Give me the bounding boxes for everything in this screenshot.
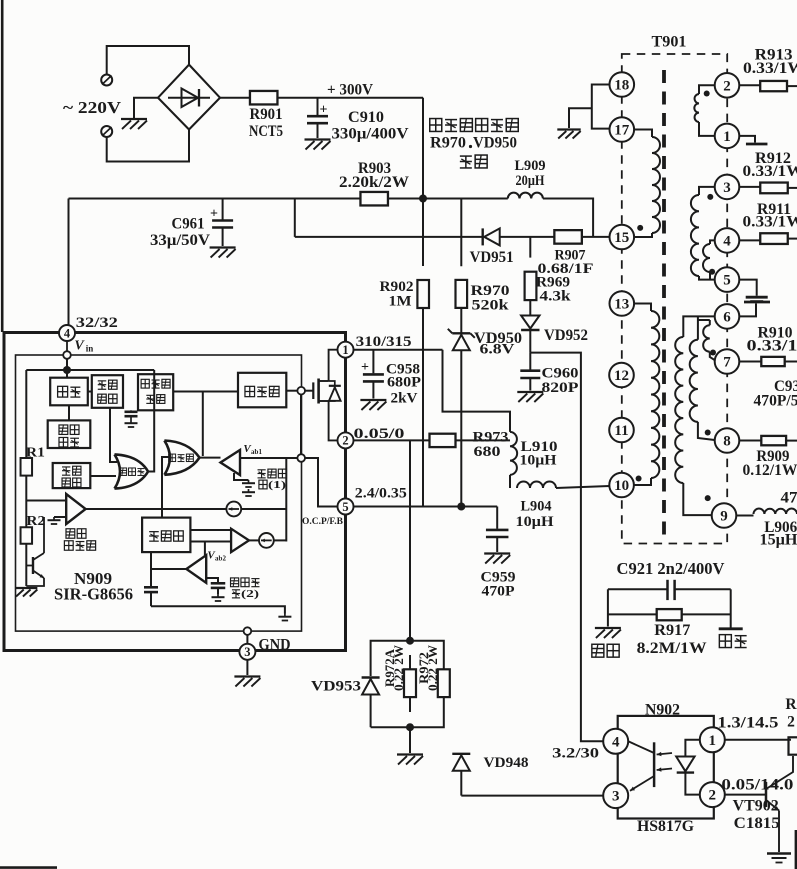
gate voltage ref 1 <box>242 480 255 496</box>
svg-text:8: 8 <box>723 434 731 450</box>
wire <box>222 199 224 220</box>
label 0.05/0 <box>354 426 405 442</box>
wire <box>110 408 117 462</box>
svg-text:VD950: VD950 <box>473 135 517 152</box>
svg-text:R2: R2 <box>26 514 45 529</box>
pin 6t <box>715 304 740 329</box>
svg-text:1.3/14.5: 1.3/14.5 <box>717 715 778 732</box>
svg-text:(2): (2) <box>241 588 259 600</box>
label C960 <box>542 366 579 382</box>
wire <box>740 84 761 86</box>
svg-text:R1: R1 <box>26 445 45 460</box>
wire <box>730 589 732 627</box>
label R9xx <box>785 696 797 731</box>
wire <box>409 727 411 753</box>
AC input terminal top <box>101 75 112 86</box>
label L906 value <box>760 532 797 549</box>
pin 3 <box>239 644 255 660</box>
resistor R910 <box>761 357 784 366</box>
wire <box>295 236 483 238</box>
wire <box>787 85 797 87</box>
wire <box>69 198 362 200</box>
ground input <box>121 119 147 129</box>
label 2.4/0.35 <box>355 486 407 502</box>
label R911 value <box>743 214 797 231</box>
label 470 partial <box>781 490 797 507</box>
phase dot <box>707 194 713 200</box>
wire <box>608 613 657 615</box>
capacitor Vab2 <box>211 583 226 588</box>
phase dot <box>704 91 710 97</box>
current source 2 <box>259 533 274 548</box>
svg-text:12: 12 <box>614 368 629 384</box>
wire <box>354 506 498 508</box>
svg-text:6.8V: 6.8V <box>480 342 515 358</box>
wire <box>274 539 287 541</box>
winding sec-D <box>675 337 683 483</box>
label VD948 <box>484 755 529 771</box>
label GND <box>259 637 291 654</box>
svg-text:20µH: 20µH <box>516 173 545 189</box>
wire <box>204 542 206 556</box>
svg-text:3: 3 <box>244 645 250 659</box>
wire <box>286 390 297 392</box>
current source 1 <box>226 502 241 517</box>
label NCT5 <box>249 123 283 140</box>
wire <box>496 507 498 529</box>
svg-text:32/32: 32/32 <box>76 315 118 331</box>
block over-heat <box>53 463 91 488</box>
scan border bottom-right <box>795 830 797 869</box>
svg-text:HS817G: HS817G <box>637 818 695 835</box>
label L904 <box>521 499 552 515</box>
wire <box>675 588 731 590</box>
wire <box>246 660 248 675</box>
wire <box>305 458 337 507</box>
diode VD951 <box>483 228 500 245</box>
label VD952 <box>544 327 588 344</box>
zener diode VD950 <box>448 329 475 351</box>
diode VD948 <box>452 754 470 771</box>
svg-text:~ 220V: ~ 220V <box>63 98 122 117</box>
wire <box>68 405 70 420</box>
label OCP/FB <box>302 517 344 527</box>
wire <box>725 794 766 796</box>
svg-text:2: 2 <box>709 788 717 804</box>
label 3.2/30 <box>552 745 599 761</box>
node open <box>244 627 252 635</box>
transistor internal <box>26 517 44 586</box>
wire <box>88 391 92 393</box>
wire <box>740 280 757 296</box>
ground C958 <box>360 400 386 410</box>
label R972 <box>417 644 440 691</box>
svg-text:L904: L904 <box>521 499 552 515</box>
svg-text:1: 1 <box>709 733 717 749</box>
label +300V <box>327 81 373 98</box>
wire <box>285 458 287 542</box>
transformer core <box>662 70 666 535</box>
svg-text:5: 5 <box>723 273 731 289</box>
wire <box>90 475 116 477</box>
label C1815 <box>734 815 780 832</box>
resistor R911 <box>760 233 788 244</box>
label C961 value <box>150 232 210 249</box>
wire <box>682 613 731 615</box>
svg-text:0.33/1W: 0.33/1W <box>743 60 797 77</box>
svg-text:R901: R901 <box>250 106 283 123</box>
svg-text:0.22 2W: 0.22 2W <box>392 644 406 691</box>
svg-text:520k: 520k <box>472 298 510 314</box>
label R910 value <box>747 337 797 354</box>
label R901 <box>250 106 283 123</box>
wire <box>68 199 70 326</box>
note line2 <box>430 135 517 152</box>
wire <box>739 440 761 442</box>
wire <box>300 395 302 455</box>
svg-text:820P: 820P <box>542 380 579 396</box>
inductor L909 <box>508 193 543 199</box>
wire <box>634 233 652 237</box>
wire <box>529 300 531 315</box>
resistor R907 <box>554 230 582 244</box>
light arrows <box>657 752 672 772</box>
label C959 <box>481 570 516 586</box>
label Vab2 <box>207 550 226 563</box>
pin 7t <box>715 349 740 374</box>
label L906 <box>764 519 797 536</box>
label R912 value <box>743 163 797 180</box>
svg-text:7: 7 <box>723 355 731 371</box>
svg-text:4.3k: 4.3k <box>540 289 572 305</box>
winding sec-B <box>691 195 699 276</box>
inductor L906 <box>754 509 797 514</box>
wire <box>569 108 592 128</box>
wire <box>173 391 238 393</box>
label VD951 <box>470 249 514 266</box>
label R902 <box>380 279 414 295</box>
block driver <box>238 373 286 408</box>
wire <box>582 236 610 238</box>
wire <box>697 316 699 339</box>
wire <box>190 529 231 531</box>
wire <box>496 537 498 552</box>
node junction <box>406 637 414 645</box>
label L910 value <box>520 453 557 469</box>
label C961 <box>172 215 205 232</box>
transformer T901 dashed box <box>622 54 727 544</box>
winding primary-2 <box>651 311 659 478</box>
svg-text:15µH: 15µH <box>760 532 797 549</box>
pin 4o <box>603 729 628 754</box>
wire <box>509 475 511 488</box>
svg-text:NCT5: NCT5 <box>249 123 283 140</box>
resistor R973 <box>430 434 456 447</box>
svg-text:VT902: VT902 <box>733 798 779 815</box>
svg-text:VD952: VD952 <box>544 327 588 344</box>
label hot-ground <box>592 644 619 657</box>
winding sec-C <box>703 244 710 272</box>
wire <box>25 544 27 586</box>
svg-text:2: 2 <box>787 713 795 730</box>
diode VD952 <box>521 316 539 331</box>
pin 2 <box>338 432 354 448</box>
svg-text:470P/5: 470P/5 <box>754 392 797 409</box>
wire <box>740 186 761 188</box>
label R969 value <box>540 289 572 305</box>
block start-up <box>50 378 88 406</box>
label L909 value <box>516 173 545 189</box>
svg-text:O.C.P/F.B: O.C.P/F.B <box>302 517 344 527</box>
capacitor osc <box>144 587 158 592</box>
label R907 value <box>538 261 594 277</box>
label VD950 <box>474 330 522 347</box>
wire <box>608 588 668 590</box>
wire <box>246 635 248 644</box>
svg-text:10µH: 10µH <box>520 453 557 469</box>
pin 5t <box>715 267 740 292</box>
svg-text:10µH: 10µH <box>516 514 554 530</box>
ground R-column <box>15 588 37 597</box>
wire <box>410 641 444 670</box>
svg-text:R917: R917 <box>654 622 690 639</box>
wire <box>241 508 286 510</box>
wire <box>725 739 791 741</box>
resistor R972 <box>438 669 450 697</box>
wire <box>699 187 715 195</box>
wire <box>200 457 221 459</box>
pin 2o <box>700 782 725 807</box>
phase dot <box>636 476 642 482</box>
svg-text:3: 3 <box>723 180 731 196</box>
wire <box>740 239 761 241</box>
capacitor C910 <box>307 102 328 123</box>
wire <box>371 641 410 676</box>
wire <box>460 308 462 333</box>
wire <box>530 353 603 742</box>
wire <box>556 486 609 488</box>
phase dot <box>710 350 716 356</box>
wire <box>150 592 152 606</box>
label 1.3/14.5 <box>717 715 778 732</box>
wire <box>25 476 27 528</box>
wire <box>422 98 424 199</box>
phase dot <box>709 269 715 275</box>
wire <box>529 237 531 258</box>
wire <box>150 552 152 586</box>
wire <box>162 457 169 518</box>
label gate voltage 2 <box>231 578 260 600</box>
svg-text:470P: 470P <box>482 584 515 600</box>
label R907 <box>555 248 586 264</box>
node junction <box>406 723 414 731</box>
OR gate 2 <box>164 441 199 475</box>
wire <box>409 655 411 712</box>
wire <box>634 478 651 485</box>
wire <box>607 589 609 626</box>
node open <box>297 387 305 395</box>
diode VD953 <box>362 678 380 695</box>
svg-text:33µ/50V: 33µ/50V <box>150 232 210 249</box>
wire <box>26 500 66 502</box>
wire <box>151 568 186 570</box>
wire <box>461 771 603 795</box>
IC N909 outer box <box>4 333 346 651</box>
wire <box>529 331 531 353</box>
svg-text:310/315: 310/315 <box>356 334 412 350</box>
note line3 <box>460 155 487 168</box>
label ~220V <box>63 98 122 117</box>
wire <box>220 97 250 99</box>
pin 17 <box>610 117 635 142</box>
label cold-ground <box>719 635 746 648</box>
wire <box>785 361 797 363</box>
svg-text:3.2/30: 3.2/30 <box>552 745 599 761</box>
wire <box>709 320 711 325</box>
resistor R969 <box>525 272 537 300</box>
label C960 value <box>542 380 579 396</box>
label C959 value <box>482 584 515 600</box>
svg-text:11: 11 <box>614 423 628 439</box>
pin 4 <box>59 325 75 341</box>
svg-text:T901: T901 <box>652 33 687 50</box>
wire <box>740 361 762 363</box>
svg-text:+: + <box>320 102 328 117</box>
label R911 <box>757 201 791 218</box>
label R969 <box>536 275 570 291</box>
svg-text:3: 3 <box>612 789 620 805</box>
wire <box>25 370 27 458</box>
winding primary-1 <box>652 137 660 233</box>
pin 3o <box>603 783 628 808</box>
svg-text:C961: C961 <box>172 215 205 232</box>
OR gate 1 <box>115 454 149 488</box>
svg-text:1: 1 <box>342 343 348 357</box>
wire <box>709 272 711 280</box>
label R970 value <box>472 298 510 314</box>
comparator Vab2 <box>186 555 206 583</box>
label C93x value <box>754 392 797 409</box>
label C958 <box>386 362 420 378</box>
label Vab1 <box>243 443 262 456</box>
pin 4t <box>715 228 740 253</box>
pin 5 <box>338 499 354 515</box>
resistor R903 <box>360 192 388 206</box>
svg-text:VD951: VD951 <box>470 249 514 266</box>
ground C910 <box>305 140 331 150</box>
svg-text:GND: GND <box>259 637 291 654</box>
label R913 <box>755 46 793 63</box>
wire <box>354 439 430 441</box>
wire <box>134 98 158 118</box>
opto transistor <box>628 741 654 791</box>
pin 9t <box>712 503 737 528</box>
label R917 <box>654 622 690 639</box>
wire <box>740 136 756 143</box>
resistor R913 <box>760 81 787 91</box>
node open Vin <box>63 341 71 359</box>
wire <box>500 236 555 238</box>
phase dot <box>705 430 711 436</box>
svg-text:+ 300V: + 300V <box>327 81 373 98</box>
svg-text:680: 680 <box>474 444 501 460</box>
wire <box>710 240 715 244</box>
pin 1t <box>715 124 740 149</box>
wire <box>371 695 410 728</box>
pin 1o <box>700 727 725 752</box>
wire <box>460 351 462 507</box>
transistor MOSFET <box>313 350 337 441</box>
label R973 <box>473 430 509 446</box>
label C910 <box>348 109 384 126</box>
ground latch <box>125 420 138 427</box>
wire <box>26 369 154 371</box>
wire <box>634 304 651 312</box>
ground Vab2 <box>212 594 225 601</box>
capacitor latch <box>125 410 138 420</box>
wire <box>317 98 319 115</box>
wire <box>234 473 249 480</box>
ground C959 <box>484 554 510 564</box>
svg-text:15: 15 <box>614 230 629 246</box>
svg-text:0.22 2W: 0.22 2W <box>426 644 440 691</box>
pin 12 <box>609 363 634 388</box>
svg-text:17: 17 <box>614 123 630 139</box>
svg-text:330µ/400V: 330µ/400V <box>332 125 409 142</box>
ground VT902 <box>767 854 791 863</box>
ground C961 <box>210 248 236 258</box>
svg-text:L909: L909 <box>515 158 546 174</box>
node junction <box>63 366 71 374</box>
wire <box>699 122 715 136</box>
pin 2t <box>715 73 740 98</box>
svg-text:2.4/0.35: 2.4/0.35 <box>355 486 407 502</box>
wire <box>543 199 593 237</box>
label R970 <box>471 283 510 299</box>
winding sec-E <box>690 340 698 422</box>
svg-text:6: 6 <box>723 310 731 326</box>
error amplifier <box>66 494 85 524</box>
ground pin1t <box>746 143 768 146</box>
capacitor C959 <box>486 530 509 537</box>
svg-text:+: + <box>361 360 369 375</box>
wire <box>592 85 610 129</box>
wire <box>683 483 712 515</box>
svg-text:R970: R970 <box>430 135 466 152</box>
resistor R902 <box>417 280 429 308</box>
ground C960 <box>517 392 543 402</box>
label gate voltage 1 <box>258 469 287 491</box>
wire <box>107 46 189 75</box>
svg-text:ab2: ab2 <box>215 554 226 562</box>
optocoupler N902 box <box>618 716 714 819</box>
svg-text:2: 2 <box>342 434 348 448</box>
label R912 <box>755 150 791 167</box>
scan border line <box>1 0 4 332</box>
pin 10 <box>609 473 634 498</box>
pin 11 <box>609 418 634 443</box>
node junction <box>457 503 465 511</box>
wire <box>788 238 797 240</box>
wire <box>699 276 715 280</box>
svg-text:1: 1 <box>723 129 731 145</box>
svg-text:4: 4 <box>612 734 620 750</box>
capacitor C961 <box>210 206 233 227</box>
svg-text:C921 2n2/400V: C921 2n2/400V <box>617 559 725 578</box>
ground pin18 <box>557 130 580 139</box>
block reset-reg <box>48 420 91 448</box>
comparator Vab1 <box>221 450 241 475</box>
